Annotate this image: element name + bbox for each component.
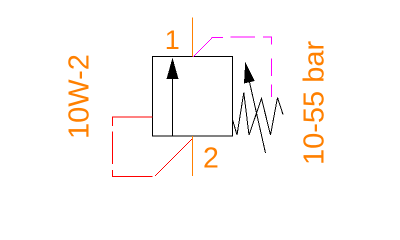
svg-text:10-55 bar: 10-55 bar (299, 41, 331, 165)
svg-text:2: 2 (203, 143, 219, 175)
svg-text:10W-2: 10W-2 (64, 54, 96, 139)
svg-text:1: 1 (165, 25, 180, 55)
